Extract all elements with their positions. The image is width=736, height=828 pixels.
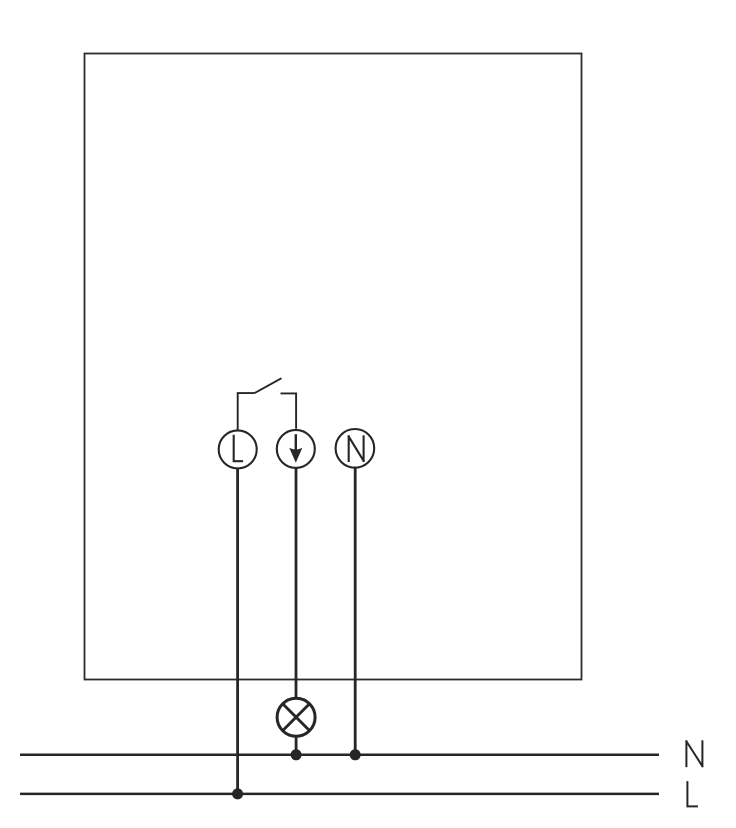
lamp E1 (277, 698, 315, 736)
wire: arrow terminal down to lamp (295, 468, 298, 699)
wire: switch right contact to arrow terminal (281, 393, 297, 428)
label N (N rail) (685, 740, 687, 767)
arrow symbol (295, 434, 297, 455)
wire: lamp down to N rail (295, 737, 298, 755)
junction: N terminal to N rail (350, 749, 361, 760)
L rail (20, 793, 659, 796)
switch S1 blade (255, 378, 282, 393)
label N (terminal) (348, 435, 350, 462)
wire: stub from terminal L up to switch (238, 393, 255, 429)
wire: N terminal down to N rail (354, 468, 357, 755)
label L (L rail) (687, 781, 698, 806)
terminal arrow (load output) (277, 430, 315, 468)
wire: L terminal down to L rail (236, 468, 239, 794)
N rail (20, 754, 659, 757)
junction: lamp to N rail (291, 749, 302, 760)
device enclosure rectangle (85, 54, 582, 680)
label L (terminal) (234, 435, 243, 462)
terminal N (336, 429, 375, 468)
junction: L terminal to L rail (232, 788, 243, 799)
terminal L (219, 430, 257, 468)
